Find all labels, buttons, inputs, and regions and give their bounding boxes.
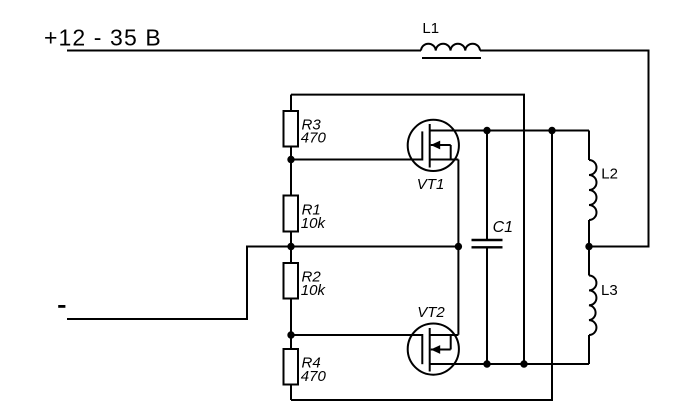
node: VT1 gate junction (287, 156, 294, 163)
wire: +V rail left segment (67, 50, 421, 52)
node: C1 top junction (483, 127, 490, 134)
svg-text:L3: L3 (601, 282, 618, 299)
wire: R4 bottom lead (290, 385, 292, 401)
wire: R3 bottom lead (290, 147, 292, 196)
svg-text:VT1: VT1 (417, 176, 445, 193)
svg-text:L2: L2 (601, 165, 618, 182)
node: cross link B junction (548, 127, 555, 134)
svg-text:+12 - 35 В: +12 - 35 В (44, 25, 162, 51)
svg-text:VT2: VT2 (417, 304, 445, 321)
inductor L2 (589, 131, 597, 247)
wire: bottom node line (VT2 drain) (430, 363, 589, 365)
resistor R4 (284, 349, 299, 385)
wire: cross link R4 bottom to top node (291, 131, 552, 401)
resistor R3 (284, 111, 299, 147)
svg-text:10k: 10k (301, 282, 327, 299)
node: C1 bottom junction (483, 360, 490, 367)
node: cross link A junction (520, 360, 527, 367)
wire: +V rail right segment to center tap (480, 51, 649, 247)
inductor L1 (421, 44, 481, 58)
svg-text:L1: L1 (422, 20, 439, 37)
wire: R2 bottom lead (290, 299, 292, 350)
resistor R1 (284, 196, 299, 232)
node: middle rail R junction (287, 243, 294, 250)
wire: common source line (457, 160, 459, 335)
wire: VT2 gate line (291, 334, 422, 336)
svg-text:C1: C1 (493, 219, 513, 236)
wire: cross link R3 top to bottom node (291, 95, 524, 364)
wire: top node line (VT1 drain) (430, 130, 589, 132)
node: VT2 gate junction (287, 331, 294, 338)
transistor VT1 (408, 120, 459, 171)
inductor L3 (589, 247, 596, 365)
svg-text:470: 470 (301, 368, 327, 385)
resistor R2 (284, 263, 299, 299)
svg-text:10k: 10k (301, 215, 327, 232)
wire: VT1 gate line (291, 159, 422, 161)
capacitor C1 (472, 131, 503, 365)
minus sign (58, 305, 65, 308)
svg-text:470: 470 (301, 129, 327, 146)
wire: minus lead (67, 247, 458, 320)
node: source/minus junction (455, 243, 462, 250)
node: center tap junction (585, 243, 592, 250)
wire: R1 bottom lead (290, 232, 292, 264)
transistor VT2 (408, 324, 459, 375)
wire: R3 top lead (290, 95, 292, 111)
